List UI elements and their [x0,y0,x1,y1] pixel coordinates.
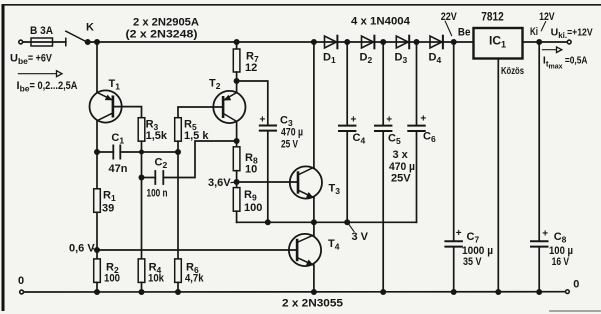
fuse B 3A [31,38,53,46]
svg-text:10k: 10k [148,273,165,285]
node T1 emitter top [95,40,99,44]
resistor R7 [233,42,240,81]
svg-text:25 V: 25 V [281,139,298,151]
input terminal Ube [19,40,23,44]
wire 0.6V rail to T4 base [97,249,297,251]
tick 12V [541,22,545,31]
diode D2 [362,36,375,49]
node Be [452,40,456,44]
svg-text:+: + [420,114,426,125]
node R4 bottom [139,290,143,294]
svg-text:470 µ: 470 µ [281,127,303,139]
diode D1 [325,36,338,49]
svg-text:10: 10 [245,164,257,176]
output terminal Uki [567,40,571,44]
capacitor C3 [260,126,276,223]
svg-text:7812: 7812 [481,12,504,24]
transistor T3 (NPN) [290,42,322,222]
switch K blade [66,31,88,42]
diode D4 [430,36,443,49]
svg-text:100 n: 100 n [147,188,168,200]
wire R5 bottom [177,141,179,152]
capacitor C4 [339,42,355,222]
wire 3V rail [237,221,417,223]
arrow I_be [18,71,62,77]
svg-text:3 V: 3 V [352,231,369,243]
svg-text:+: + [260,114,266,125]
node R6 bottom [176,290,180,294]
switch K fixed contact tick [65,38,67,45]
capacitor C5 [375,42,391,292]
wire input to switch [23,41,66,43]
node R7 bottom / T2 emitter [234,79,238,83]
node C2 left [139,175,143,179]
node D1-D2 [345,40,349,44]
svg-text:+: + [386,114,392,125]
node R7 top [234,40,238,44]
svg-text:25V: 25V [391,173,411,185]
node T3 emitter / T4 collector [312,220,316,224]
wire R8 bottom [236,171,238,182]
arrow I_1max [542,47,561,53]
node C3 bottom [266,220,270,224]
resistor R8 [233,147,240,171]
svg-text:100: 100 [104,273,120,285]
svg-text:22V: 22V [441,11,458,23]
svg-text:12: 12 [245,62,257,74]
wire IC out [523,41,568,43]
node Ki [537,40,541,44]
capacitor C1 [97,145,178,158]
node T1 collector / C1 left [95,150,99,154]
svg-text:100: 100 [244,202,262,214]
node switch out [86,40,90,44]
node T4 emitter bottom [312,290,316,294]
node C7 bottom [452,290,456,294]
wire R7 node to C3 [237,81,268,125]
ground terminal left [20,290,24,294]
wire top rail [88,41,474,43]
svg-text:16 V: 16 V [552,256,570,268]
ground terminal right [566,290,570,294]
node C5 bottom [381,290,385,294]
svg-text:0,6 V: 0,6 V [69,243,95,255]
svg-text:+: + [542,229,548,240]
resistor R9 [233,182,240,222]
svg-text:1,5 k: 1,5 k [184,130,209,142]
resistor R6 [175,259,182,292]
capacitor C2 [142,141,237,184]
resistor R2 [94,250,101,292]
node 0.6V [95,248,99,252]
wire T1 base to R3 [113,107,142,118]
svg-text:(2 x 2N3248): (2 x 2N3248) [126,29,198,41]
svg-text:0: 0 [573,279,579,291]
svg-text:+: + [351,114,357,125]
svg-text:35 V: 35 V [463,256,482,268]
tick 22V [445,21,451,35]
svg-text:4,7k: 4,7k [185,273,204,285]
svg-text:12V: 12V [539,11,555,23]
wire IC Közös to ground rail [497,59,499,293]
node R2 bottom [95,290,99,294]
node R3/R4/C1 [140,150,143,153]
node Közös bottom [496,290,500,294]
node C2 right / T2 collector [234,139,238,143]
svg-text:2 x 2N3055: 2 x 2N3055 [282,298,343,310]
wire 0 rail [24,291,565,293]
transistor T1 (PNP) [90,42,122,152]
node C8 bottom [537,290,541,294]
wire R4 link [141,152,143,259]
svg-text:B 3A: B 3A [30,25,53,37]
svg-text:2 x 2N2905A: 2 x 2N2905A [133,17,199,29]
wire R3 bottom [141,141,143,152]
tick 3.6V [231,181,235,183]
svg-text:3 x: 3 x [393,149,409,161]
svg-text:Ki: Ki [530,26,538,38]
IC IC1 7812 regulator [474,28,523,59]
resistor R4 [138,259,145,292]
resistor R3 [138,118,145,142]
node C4 bottom [345,220,349,224]
node R5/R6/C1 [176,150,180,154]
svg-text:3,6V: 3,6V [208,177,231,189]
svg-text:470 µ: 470 µ [389,161,415,173]
capacitor C8 [531,42,548,292]
node D1 anode [312,40,316,44]
svg-text:+: + [456,228,462,239]
capacitor C7 [445,42,462,292]
transistor T4 (NPN) [289,222,321,292]
svg-text:1,5k: 1,5k [146,130,168,142]
svg-text:Közös: Közös [501,65,524,77]
resistor R1 [94,152,101,250]
tick 0.6V [93,248,97,250]
wire T2 base to R5 [178,107,223,118]
svg-text:0: 0 [18,275,24,287]
wire R6 link [177,152,179,259]
node D2-D3 [381,40,385,44]
svg-text:39: 39 [102,203,114,215]
diode D3 [396,36,409,49]
svg-text:Ube= +6V: Ube= +6V [10,53,52,67]
resistor R5 [175,118,182,142]
svg-text:K: K [86,22,94,34]
transistor T2 (PNP, mirrored) [213,81,245,147]
wire T3 base [237,181,298,183]
tick 3V [349,224,354,232]
node D3-D4 [414,40,418,44]
svg-text:47n: 47n [109,163,128,175]
svg-text:Be: Be [458,27,471,39]
node 3.6V [234,180,238,184]
capacitor C6 [408,42,424,222]
svg-text:Uki.=+12V: Uki.=+12V [551,27,593,41]
svg-text:4 x 1N4004: 4 x 1N4004 [351,16,411,28]
